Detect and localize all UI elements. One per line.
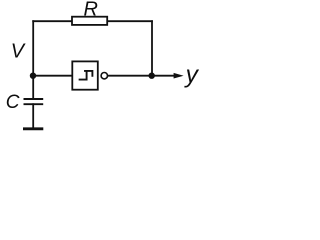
wire: left vertical rail: [32, 21, 34, 98]
op-amp U1 hysteresis symbol: [80, 71, 93, 80]
wire: top horizontal left of R: [33, 20, 72, 22]
svg-text:C: C: [6, 92, 20, 113]
capacitor C1 bottom plate: [24, 103, 44, 105]
wire: right vertical from top to output node: [151, 21, 153, 75]
node A (input junction dot): [30, 73, 36, 79]
wire: capacitor bottom lead to ground: [32, 104, 34, 128]
wire: output wire from bubble to node B: [108, 75, 152, 77]
svg-text:V: V: [11, 40, 26, 62]
node B (output junction dot): [149, 73, 155, 79]
wire: input wire from node A to Schmitt trigger: [33, 75, 72, 77]
output arrowhead: [174, 73, 184, 79]
op-amp U1 inversion bubble: [101, 73, 107, 79]
svg-text:R: R: [84, 0, 98, 21]
wire: top horizontal right of R: [107, 20, 152, 22]
resistor R1 body: [72, 17, 107, 25]
op-amp U1 (Schmitt-trigger inverter box): [72, 61, 98, 89]
wire: output wire node B to arrow: [152, 75, 175, 77]
ground: [23, 127, 43, 130]
capacitor C1 top plate: [24, 98, 44, 100]
svg-text:y: y: [184, 62, 200, 89]
